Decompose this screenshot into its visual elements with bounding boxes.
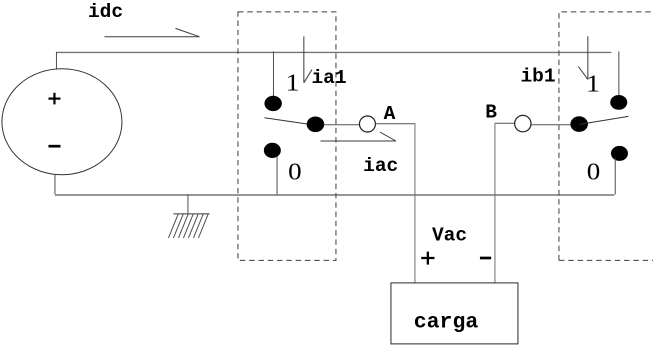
svg-text:Vac: Vac — [432, 224, 467, 246]
wire node B to pole — [531, 124, 571, 126]
current arrow ia1 — [304, 36, 312, 82]
wire bottom bus — [55, 194, 615, 196]
contact 1 dot switch B — [610, 95, 627, 110]
contact 0 dot switch B — [611, 146, 628, 161]
wire node B corner — [495, 122, 515, 124]
switch A pole dot — [307, 117, 325, 133]
svg-text:ib1: ib1 — [520, 65, 555, 87]
svg-text:0: 0 — [587, 160, 601, 186]
load box carga — [391, 283, 518, 344]
voltage source Vdc — [2, 69, 122, 175]
svg-text:B: B — [485, 101, 497, 123]
wire switch A contact-0 stub — [276, 156, 278, 194]
current arrow ib1 — [578, 36, 588, 79]
current arrow idc — [104, 28, 199, 36]
wire switch A contact-1 stub — [272, 51, 274, 100]
svg-text:ia1: ia1 — [311, 67, 346, 89]
switch B arm — [579, 116, 628, 124]
wire pole to node A — [323, 124, 359, 126]
source plus sign — [48, 93, 60, 105]
wire switch B contact-0 stub — [614, 158, 616, 194]
svg-text:carga: carga — [414, 311, 479, 335]
wire node B down to load — [494, 123, 496, 283]
wire node A down to load — [414, 124, 416, 283]
node A terminal circle — [359, 116, 375, 132]
contact 0 dot switch A — [264, 143, 281, 158]
switch A arm — [264, 118, 316, 126]
svg-text:1: 1 — [285, 71, 299, 97]
dashed box switch B — [559, 12, 653, 261]
wire source top stub — [55, 52, 57, 70]
ground — [168, 194, 209, 238]
source minus sign — [48, 145, 60, 148]
svg-text:1: 1 — [586, 72, 600, 98]
svg-text:A: A — [384, 103, 396, 125]
load minus sign — [480, 257, 491, 260]
current arrow iac — [320, 132, 396, 141]
node B terminal circle — [515, 115, 531, 131]
wire top bus — [56, 51, 611, 53]
wire switch B contact-1 stub — [618, 51, 620, 99]
switch B pole dot — [570, 116, 588, 132]
dashed box switch A — [238, 12, 336, 261]
load plus sign — [421, 252, 434, 265]
svg-text:0: 0 — [288, 159, 302, 185]
contact 1 dot switch A — [264, 96, 281, 111]
wire node A to corner — [376, 123, 416, 125]
svg-text:iac: iac — [363, 155, 398, 177]
svg-text:idc: idc — [88, 1, 123, 23]
wire source bottom stub — [54, 175, 56, 195]
